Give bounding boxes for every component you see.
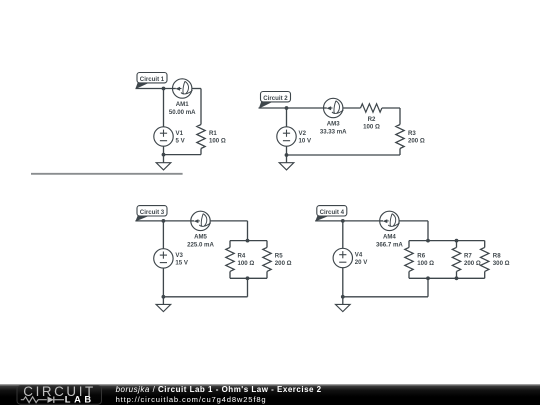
resistor R6 xyxy=(405,247,413,271)
resistor R1 xyxy=(197,125,205,149)
voltage source V3 xyxy=(154,249,173,268)
resistor R5 xyxy=(263,247,271,271)
svg-text:AM5: AM5 xyxy=(194,234,207,241)
svg-text:200 Ω: 200 Ω xyxy=(275,260,292,267)
node circuit4 top junction xyxy=(341,219,345,223)
footer title text xyxy=(116,385,322,404)
svg-text:10 V: 10 V xyxy=(299,138,312,145)
svg-text:Circuit 4: Circuit 4 xyxy=(320,209,345,216)
wire R6 top lead xyxy=(408,241,410,248)
wire AM5 to parallel top rail xyxy=(210,221,247,241)
wire R7 bottom lead xyxy=(456,271,458,278)
ground xyxy=(156,304,171,311)
wire bottom rail xyxy=(409,277,485,279)
wire circuit3 top left segment xyxy=(135,220,190,222)
svg-text:300 Ω: 300 Ω xyxy=(493,260,510,267)
svg-text:5 V: 5 V xyxy=(176,138,186,145)
wire parallel block to bottom wire xyxy=(163,278,247,297)
svg-text:20 V: 20 V xyxy=(355,259,368,266)
node circuit1 bottom junction xyxy=(162,153,166,157)
svg-text:R2: R2 xyxy=(368,116,376,123)
node label flag "Circuit 3" xyxy=(135,206,167,222)
resistor R4 xyxy=(226,247,234,271)
svg-text:R7: R7 xyxy=(464,253,472,260)
wire V2 bottom lead xyxy=(286,146,288,155)
svg-text:R5: R5 xyxy=(275,253,283,260)
wire R6 bottom lead xyxy=(408,271,410,278)
ammeter AM3 xyxy=(324,98,344,117)
svg-text:225.0 mA: 225.0 mA xyxy=(187,241,214,248)
wire R5 top lead xyxy=(266,241,268,248)
wire circuit1 bottom wire xyxy=(164,154,202,156)
resistor R7 xyxy=(452,247,460,271)
wire R3 bottom lead xyxy=(399,149,401,156)
svg-text:R1: R1 xyxy=(209,130,217,137)
voltage source V4 xyxy=(333,248,352,267)
ground xyxy=(279,163,294,170)
svg-text:100 Ω: 100 Ω xyxy=(363,124,380,131)
node circuit3 bottom junction xyxy=(162,295,166,299)
svg-text:V2: V2 xyxy=(299,130,307,137)
wire bottom rail xyxy=(230,277,267,279)
wire V3 bottom lead xyxy=(162,268,164,297)
svg-text:33.33 mA: 33.33 mA xyxy=(320,128,347,135)
wire ground lead xyxy=(162,297,164,305)
svg-text:R6: R6 xyxy=(417,253,425,260)
ammeter AM5 xyxy=(191,211,211,230)
svg-text:V3: V3 xyxy=(175,252,183,259)
voltage source V2 xyxy=(277,127,296,146)
svg-text:V1: V1 xyxy=(176,130,184,137)
ground xyxy=(156,163,171,170)
node bottom rail junction A xyxy=(426,276,430,280)
node circuit1 top junction xyxy=(162,87,166,91)
wire V4 top lead xyxy=(342,221,344,248)
svg-text:http://circuitlab.com/cu7g4d8w: http://circuitlab.com/cu7g4d8w25f8g xyxy=(116,395,267,404)
wire ground lead xyxy=(342,297,344,305)
node top rail junction A xyxy=(426,239,430,243)
wire long gray divider xyxy=(31,173,183,175)
svg-text:AM4: AM4 xyxy=(383,234,396,241)
CircuitLab logo badge xyxy=(17,384,102,404)
ground xyxy=(336,304,351,311)
ammeter AM4 xyxy=(380,211,400,230)
svg-text:borusjka / Circuit Lab 1 - Ohm: borusjka / Circuit Lab 1 - Ohm's Law - E… xyxy=(116,385,322,394)
wire R1 bottom lead xyxy=(200,149,202,155)
wire V1 top lead xyxy=(163,89,165,127)
wire circuit4 top left segment xyxy=(315,220,380,222)
node label flag "Circuit 2" xyxy=(259,92,291,109)
svg-text:Circuit 3: Circuit 3 xyxy=(140,209,165,216)
svg-text:R4: R4 xyxy=(238,253,246,260)
wire AM3 to R2 xyxy=(343,107,361,109)
wire circuit2 bottom wire xyxy=(287,154,401,156)
wire R2 to right corner xyxy=(382,107,400,109)
svg-text:15 V: 15 V xyxy=(175,260,188,267)
node circuit2 top junction xyxy=(285,106,289,110)
svg-text:Circuit 1: Circuit 1 xyxy=(140,76,165,83)
node label flag "Circuit 1" xyxy=(135,73,167,90)
wire ground lead xyxy=(286,155,288,163)
node circuit4 bottom junction xyxy=(341,295,345,299)
svg-text:R3: R3 xyxy=(408,130,416,137)
wire R8 bottom lead xyxy=(484,271,486,278)
svg-text:100 Ω: 100 Ω xyxy=(238,260,255,267)
node bottom rail junction B xyxy=(455,276,459,280)
wire V3 top lead xyxy=(162,221,164,249)
wire R4 bottom lead xyxy=(229,271,231,278)
voltage source V1 xyxy=(154,127,173,146)
svg-text:100 Ω: 100 Ω xyxy=(209,138,226,145)
wire top rail xyxy=(230,240,267,242)
svg-text:200 Ω: 200 Ω xyxy=(464,260,481,267)
resistor R8 xyxy=(481,247,489,271)
wire V4 bottom lead xyxy=(342,268,344,297)
svg-text:366.7 mA: 366.7 mA xyxy=(376,241,403,248)
svg-text:Circuit 2: Circuit 2 xyxy=(263,95,288,102)
wire circuit1 top left segment xyxy=(136,88,173,90)
wire V1 bottom lead xyxy=(163,146,165,154)
svg-text:AM1: AM1 xyxy=(176,101,189,108)
svg-text:200 Ω: 200 Ω xyxy=(408,138,425,145)
node circuit3 top junction xyxy=(162,219,166,223)
wire R8 top lead xyxy=(484,241,486,248)
wire parallel block to bottom wire xyxy=(343,278,428,297)
wire R4 top lead xyxy=(229,241,231,248)
node circuit2 bottom junction xyxy=(285,153,289,157)
wire ground lead xyxy=(163,155,165,163)
svg-text:LAB: LAB xyxy=(65,395,95,405)
svg-text:50.00 mA: 50.00 mA xyxy=(169,109,196,116)
svg-text:AM3: AM3 xyxy=(327,121,340,128)
wire AM1 to R1 top xyxy=(192,88,201,90)
wire R7 top lead xyxy=(456,241,458,248)
node label flag "Circuit 4" xyxy=(315,206,347,222)
resistor R2 xyxy=(361,104,382,112)
node parallel bottom junction xyxy=(246,276,250,280)
svg-text:V4: V4 xyxy=(355,252,363,259)
node parallel top junction xyxy=(246,239,250,243)
wire right branch down to R3 xyxy=(399,108,401,125)
ammeter AM1 xyxy=(173,79,193,98)
svg-text:R8: R8 xyxy=(493,253,501,260)
wire R5 bottom lead xyxy=(266,271,268,278)
resistor R3 xyxy=(396,125,404,149)
wire right branch down to R1 xyxy=(200,89,202,125)
svg-text:100 Ω: 100 Ω xyxy=(417,260,434,267)
wire circuit2 top left segment xyxy=(259,107,324,109)
wire V2 top lead xyxy=(286,108,288,127)
node top rail junction B xyxy=(455,239,459,243)
wire top rail xyxy=(409,240,485,242)
wire AM4 to parallel top rail xyxy=(399,221,428,241)
